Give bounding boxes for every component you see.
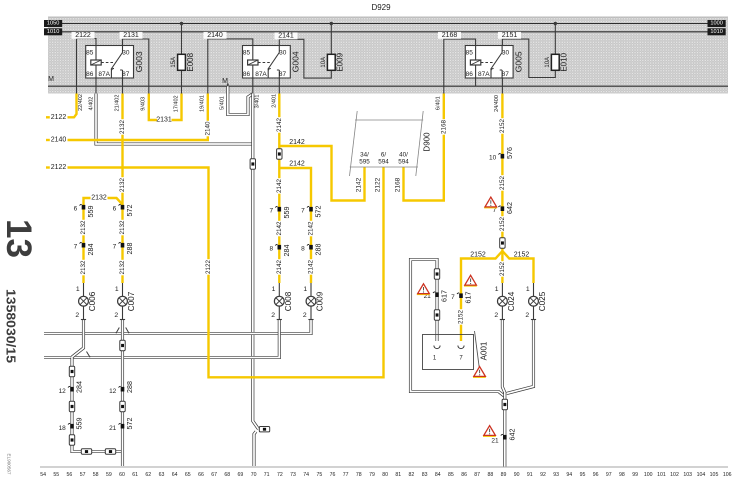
svg-text:65: 65	[185, 472, 191, 478]
wire G003 pin87 to connector 21/402	[122, 78, 124, 94]
svg-text:2168: 2168	[442, 32, 458, 39]
svg-text:63: 63	[159, 472, 165, 478]
svg-text:70: 70	[251, 472, 257, 478]
wire 2131 relay G003 pin30 to connector 9/403	[120, 32, 149, 94]
ground chain 284/559 left	[72, 358, 123, 452]
svg-text:1: 1	[303, 286, 307, 293]
svg-text:17/402: 17/402	[173, 95, 179, 112]
svg-text:4/402: 4/402	[88, 97, 94, 111]
lamp C007	[114, 283, 136, 320]
svg-text:59: 59	[106, 472, 112, 478]
svg-text:24/400: 24/400	[494, 95, 500, 112]
svg-text:2122: 2122	[75, 32, 91, 39]
svg-text:10A: 10A	[545, 57, 551, 68]
svg-text:12: 12	[59, 388, 67, 395]
bus tag 1050 left	[44, 20, 62, 27]
wire 2140 feed from left page edge	[46, 94, 211, 144]
svg-text:2140: 2140	[207, 32, 223, 39]
svg-text:C008: C008	[284, 291, 293, 311]
svg-text:3/401: 3/401	[255, 95, 261, 109]
wire 2152 split to three lamps branches	[457, 251, 533, 341]
relay G005	[465, 46, 523, 79]
svg-text:2152: 2152	[458, 310, 465, 325]
lamp C006 ground lead joining lower bus	[72, 320, 90, 358]
wire 2122 relay G003 pin85 to connector 22/402	[72, 32, 97, 94]
svg-text:642: 642	[505, 202, 514, 214]
svg-text:2152: 2152	[499, 262, 506, 277]
svg-text:2152: 2152	[499, 217, 506, 232]
svg-text:2142: 2142	[308, 221, 315, 236]
svg-text:91: 91	[527, 472, 533, 478]
svg-text:6/401: 6/401	[436, 96, 442, 110]
svg-text:1: 1	[495, 286, 499, 293]
supply bus line 1010	[62, 31, 708, 33]
lamp C006	[75, 283, 97, 320]
svg-text:2152: 2152	[499, 176, 506, 191]
connectors on left ground chain net 284 559	[59, 366, 84, 445]
svg-text:2: 2	[303, 312, 307, 319]
wire 2168 relay G005 pin85 to connector 6/401	[438, 32, 476, 94]
svg-text:2: 2	[494, 312, 498, 319]
fuse E008 15A	[171, 22, 195, 72]
lamp C008	[271, 283, 293, 320]
svg-text:2151: 2151	[502, 32, 518, 39]
svg-text:102: 102	[670, 472, 679, 478]
ground wire 642 to bottom	[503, 392, 506, 467]
wire 2132 segments to lamp C006	[80, 208, 87, 284]
svg-text:75: 75	[317, 472, 323, 478]
warning triangle at 617 branch	[464, 275, 477, 286]
svg-text:9/403: 9/403	[141, 97, 147, 111]
svg-text:86: 86	[243, 71, 251, 78]
switch A001 ground loop wire 617	[411, 260, 505, 397]
svg-text:2142: 2142	[289, 139, 305, 146]
wire 2122 feed from left page edge upper	[46, 94, 84, 121]
svg-text:64: 64	[172, 472, 178, 478]
svg-text:85: 85	[243, 49, 251, 56]
svg-text:80: 80	[382, 472, 388, 478]
svg-text:2132: 2132	[119, 120, 126, 135]
ground bus lower to lamp C008	[44, 320, 279, 358]
splice 7 net 617 on 2152 branch	[451, 292, 472, 304]
svg-text:1050: 1050	[47, 21, 59, 27]
svg-text:617: 617	[464, 292, 473, 304]
wire G005 pin86 to ground line M	[475, 78, 477, 86]
svg-text:73: 73	[290, 472, 296, 478]
svg-text:2122: 2122	[205, 260, 212, 275]
coordinate ruler	[40, 467, 732, 478]
svg-text:2122: 2122	[51, 164, 67, 171]
svg-text:58: 58	[93, 472, 99, 478]
svg-text:2152: 2152	[470, 252, 486, 259]
svg-text:22/402: 22/402	[78, 94, 84, 111]
wire 2131 U-link connector 17/402 to 9/403	[141, 94, 182, 124]
svg-text:C025: C025	[538, 291, 547, 311]
svg-text:594: 594	[398, 158, 409, 165]
svg-text:76: 76	[330, 472, 336, 478]
svg-text:2142: 2142	[355, 177, 362, 192]
svg-text:C009: C009	[316, 291, 325, 311]
svg-text:617: 617	[440, 290, 449, 302]
svg-text:68: 68	[224, 472, 230, 478]
svg-text:E009: E009	[336, 52, 345, 71]
splice 7 net 642 on 2152	[493, 202, 514, 214]
svg-text:559: 559	[86, 206, 95, 218]
svg-text:2152: 2152	[514, 252, 530, 259]
svg-text:56: 56	[67, 472, 73, 478]
svg-text:89: 89	[501, 472, 507, 478]
svg-text:284: 284	[74, 381, 83, 393]
svg-text:G004: G004	[291, 51, 301, 72]
svg-text:E010: E010	[560, 52, 569, 71]
svg-text:2/401: 2/401	[271, 94, 277, 108]
svg-text:1010: 1010	[47, 29, 59, 35]
svg-text:2122: 2122	[374, 177, 381, 192]
svg-text:8: 8	[301, 246, 305, 253]
svg-text:M: M	[48, 76, 54, 83]
lamp C025 ground lead	[507, 320, 534, 394]
svg-text:594: 594	[378, 158, 389, 165]
svg-text:97: 97	[606, 472, 612, 478]
svg-text:7: 7	[301, 208, 305, 215]
svg-text:572: 572	[125, 205, 134, 217]
fuse E009 10A	[321, 22, 345, 72]
svg-text:284: 284	[86, 244, 95, 256]
svg-text:57: 57	[80, 472, 86, 478]
svg-text:559: 559	[282, 207, 291, 219]
svg-text:78: 78	[356, 472, 362, 478]
wire 2122 long run to D900 pin 6/594	[46, 164, 384, 377]
wire G004 pin86 to connector 3/401	[252, 78, 254, 94]
svg-text:D929: D929	[371, 3, 391, 12]
svg-text:G003: G003	[134, 51, 144, 72]
svg-text:104: 104	[697, 472, 706, 478]
svg-text:84: 84	[435, 472, 441, 478]
svg-text:G005: G005	[514, 51, 524, 72]
svg-text:2142: 2142	[276, 118, 283, 133]
svg-text:572: 572	[314, 206, 323, 218]
lamp C025	[525, 283, 547, 320]
connector on 2142 feed	[277, 149, 282, 159]
inline connector on M wire near bottom	[259, 427, 269, 432]
svg-text:2152: 2152	[499, 119, 506, 134]
svg-text:87A: 87A	[255, 71, 267, 78]
svg-text:EL900567: EL900567	[7, 454, 12, 475]
svg-text:7: 7	[269, 208, 273, 215]
ground label M left	[48, 76, 54, 83]
svg-text:100: 100	[644, 472, 653, 478]
svg-text:7: 7	[451, 294, 455, 301]
svg-text:98: 98	[619, 472, 625, 478]
svg-text:79: 79	[369, 472, 375, 478]
wire G003 pin86 to connector 4/402	[95, 78, 97, 94]
svg-text:30: 30	[122, 49, 130, 56]
svg-text:55: 55	[53, 472, 59, 478]
svg-text:2132: 2132	[91, 194, 107, 201]
fuse E010 10A	[545, 22, 569, 72]
svg-text:D900: D900	[423, 132, 432, 152]
svg-text:81: 81	[395, 472, 401, 478]
svg-text:69: 69	[238, 472, 244, 478]
svg-text:E008: E008	[186, 52, 195, 71]
svg-text:10A: 10A	[321, 57, 327, 68]
print code EL900567	[7, 454, 12, 475]
svg-text:1: 1	[526, 286, 530, 293]
wire 2142 branch to lamp C009	[279, 160, 314, 283]
wire G004 pin87 to connector 2/401	[278, 78, 280, 94]
svg-text:90: 90	[514, 472, 520, 478]
ground wire M 5/401 U-link to 3/401	[219, 86, 253, 114]
svg-text:C007: C007	[127, 291, 136, 311]
svg-text:2142: 2142	[276, 221, 283, 236]
svg-text:5/401: 5/401	[219, 96, 225, 110]
lamp C007 ground lead joining upper bus	[116, 320, 129, 334]
wire 2132 segments to lamp C007	[119, 208, 126, 284]
relay G004	[243, 46, 301, 79]
svg-text:87A: 87A	[478, 71, 490, 78]
wire 2151 relay G005 pin30 to fuse E010	[498, 32, 555, 78]
lamp C024 ground lead	[502, 320, 504, 393]
svg-text:2132: 2132	[80, 260, 87, 275]
ground bus upper to lamp C009	[44, 320, 311, 334]
svg-text:288: 288	[125, 381, 134, 393]
svg-text:2131: 2131	[156, 117, 172, 124]
svg-text:2132: 2132	[119, 260, 126, 275]
svg-text:284: 284	[282, 245, 291, 257]
svg-text:19/401: 19/401	[200, 95, 206, 112]
switch unit A001	[423, 331, 489, 370]
splice 6 pair on 2132 wires	[74, 204, 134, 217]
svg-text:94: 94	[566, 472, 572, 478]
connector on M wire at 164	[250, 159, 255, 169]
svg-text:2142: 2142	[276, 179, 283, 194]
svg-text:595: 595	[359, 158, 370, 165]
diagram number 1358030/15	[4, 289, 19, 363]
wire fuse E008 to connector 17/402	[181, 70, 183, 93]
wire 2142 from connector 2/401	[271, 94, 283, 284]
svg-text:2132: 2132	[80, 220, 87, 235]
svg-text:10: 10	[489, 155, 497, 162]
wire 2140 relay G004 pin85 to connector 19/401	[204, 32, 253, 94]
splice 8 pair on 2142 wires	[269, 244, 322, 257]
svg-text:96: 96	[593, 472, 599, 478]
svg-text:74: 74	[303, 472, 309, 478]
svg-text:1: 1	[115, 286, 119, 293]
svg-text:2168: 2168	[440, 120, 447, 135]
wire 2141 relay G004 pin30 to fuse E009	[275, 32, 332, 78]
wire G005 pin87 to connector 24/400	[501, 78, 503, 94]
svg-text:2132: 2132	[119, 220, 126, 235]
svg-text:18: 18	[59, 425, 67, 432]
ground distribution wire 3/401 long vertical	[253, 94, 261, 467]
wire 2132 from connector 21/402 to lamps C006 C007	[84, 94, 127, 208]
svg-text:61: 61	[132, 472, 138, 478]
wire 2142 branch to D900 pin 34/595	[279, 139, 364, 200]
svg-text:2: 2	[525, 312, 529, 319]
svg-text:2: 2	[114, 312, 118, 319]
svg-text:7: 7	[113, 244, 117, 251]
svg-text:105: 105	[710, 472, 719, 478]
svg-text:1000: 1000	[710, 21, 722, 27]
connector block D900	[350, 111, 432, 176]
svg-text:101: 101	[657, 472, 666, 478]
svg-text:66: 66	[198, 472, 204, 478]
svg-text:93: 93	[553, 472, 559, 478]
svg-text:2: 2	[75, 312, 79, 319]
svg-text:54: 54	[40, 472, 46, 478]
svg-text:88: 88	[488, 472, 494, 478]
supply bus line 1050	[62, 23, 708, 25]
svg-text:1: 1	[76, 286, 80, 293]
ground chain 288/572 right	[121, 334, 124, 467]
svg-text:12: 12	[109, 388, 117, 395]
svg-text:8: 8	[269, 246, 273, 253]
svg-text:572: 572	[125, 418, 134, 430]
svg-text:87: 87	[279, 71, 287, 78]
svg-text:6: 6	[74, 206, 78, 213]
svg-text:92: 92	[540, 472, 546, 478]
wire 2152 from connector 24/400 down to split	[494, 94, 506, 252]
svg-text:85: 85	[448, 472, 454, 478]
svg-text:2140: 2140	[51, 137, 67, 144]
svg-text:82: 82	[409, 472, 415, 478]
connectors on chain bottom link	[81, 449, 115, 454]
warning triangle 21 at 642 splice	[484, 197, 497, 208]
svg-text:95: 95	[580, 472, 586, 478]
svg-text:30: 30	[279, 49, 287, 56]
splice 7 pair on 2132 wires	[74, 242, 134, 255]
svg-text:67: 67	[211, 472, 217, 478]
warning triangle below A001	[473, 367, 486, 378]
svg-text:83: 83	[422, 472, 428, 478]
svg-text:576: 576	[505, 147, 514, 159]
connector on 2152 above split	[500, 238, 505, 248]
bus tag 1010 right	[708, 28, 726, 35]
svg-text:C006: C006	[88, 291, 97, 311]
svg-text:21: 21	[491, 438, 499, 445]
splice 7 pair on 2142 wires	[269, 206, 322, 219]
svg-text:71: 71	[264, 472, 270, 478]
svg-text:15A: 15A	[171, 57, 177, 68]
svg-text:77: 77	[343, 472, 349, 478]
svg-text:642: 642	[507, 429, 516, 441]
svg-text:2142: 2142	[289, 160, 305, 167]
ground wire 4/402 from G003 pin86 to M distribution	[88, 94, 253, 145]
relay G003	[86, 46, 144, 79]
svg-text:C024: C024	[507, 291, 516, 311]
svg-text:1: 1	[272, 286, 276, 293]
svg-text:30: 30	[502, 49, 510, 56]
lamp C024	[494, 283, 516, 320]
svg-text:21/402: 21/402	[114, 95, 120, 112]
warning triangle at bottom 642	[483, 426, 496, 437]
bus tag 1000 right	[708, 20, 726, 27]
ground line M in band	[48, 85, 728, 87]
svg-text:288: 288	[125, 243, 134, 255]
svg-text:87: 87	[474, 472, 480, 478]
wire 2168 from D900 pin 40/594 to connector 6/401	[394, 94, 447, 201]
svg-text:2141: 2141	[278, 33, 294, 40]
svg-text:21: 21	[109, 425, 117, 432]
svg-text:103: 103	[683, 472, 692, 478]
svg-text:1010: 1010	[710, 29, 722, 35]
label D929	[371, 3, 391, 12]
svg-text:2142: 2142	[276, 260, 283, 275]
splice 21 net 642 bottom	[491, 399, 516, 444]
svg-text:6: 6	[113, 206, 117, 213]
svg-text:13: 13	[0, 219, 38, 258]
svg-text:99: 99	[632, 472, 638, 478]
page number 13	[0, 219, 38, 258]
lamp C009	[303, 283, 325, 320]
svg-text:86: 86	[466, 71, 474, 78]
svg-text:2131: 2131	[123, 32, 139, 39]
ground symbol M at G004	[222, 78, 229, 86]
connectors on right ground chain net 288 572	[109, 340, 134, 432]
svg-text:86: 86	[86, 71, 94, 78]
svg-text:A001: A001	[479, 341, 488, 360]
svg-text:87A: 87A	[98, 71, 110, 78]
svg-text:62: 62	[145, 472, 151, 478]
svg-text:85: 85	[466, 49, 474, 56]
splice 10 net 576 on 2152	[489, 147, 514, 161]
connectors and splice 21 net 617 on A001 ground lead	[424, 269, 449, 320]
svg-text:87: 87	[122, 71, 130, 78]
svg-text:86: 86	[461, 472, 467, 478]
svg-text:288: 288	[314, 244, 323, 256]
svg-text:106: 106	[723, 472, 732, 478]
svg-text:1358030/15: 1358030/15	[4, 289, 19, 363]
svg-text:559: 559	[74, 418, 83, 430]
svg-text:2122: 2122	[51, 114, 67, 121]
svg-text:7: 7	[74, 244, 78, 251]
svg-text:2142: 2142	[308, 260, 315, 275]
bus tag 1010 left	[44, 28, 62, 35]
central electronic unit D929 halftone band	[48, 17, 728, 94]
svg-text:2140: 2140	[204, 121, 211, 136]
svg-text:85: 85	[86, 49, 94, 56]
warning triangle at A001 ground lead	[417, 284, 430, 295]
svg-text:2132: 2132	[119, 178, 126, 193]
svg-text:60: 60	[119, 472, 125, 478]
svg-text:2: 2	[271, 312, 275, 319]
svg-text:87: 87	[502, 71, 510, 78]
svg-text:2168: 2168	[394, 177, 401, 192]
svg-text:M: M	[222, 78, 228, 85]
svg-text:72: 72	[277, 472, 283, 478]
